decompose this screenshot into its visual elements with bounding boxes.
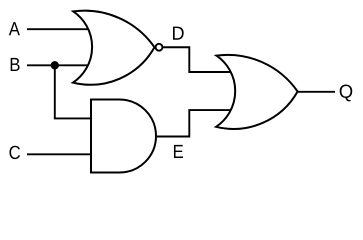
OR gate U3 body (216, 55, 298, 129)
NOR gate U1 output bubble (156, 44, 163, 51)
label B (11, 58, 20, 71)
label A (9, 22, 20, 35)
label Q (340, 85, 353, 102)
wire node D to OR gate (160, 47, 236, 72)
wire input B (27, 64, 95, 66)
wire B branch down to AND gate (55, 65, 95, 118)
wire input A (27, 28, 95, 30)
wire output Q (296, 91, 335, 93)
label D (173, 27, 184, 40)
label E (174, 145, 183, 158)
label C (9, 146, 20, 159)
wire input C (27, 153, 95, 155)
junction dot on B (51, 61, 59, 69)
AND gate U2 body (91, 100, 156, 173)
NOR gate U1 body (73, 11, 155, 85)
wire node E to OR gate (153, 110, 236, 136)
